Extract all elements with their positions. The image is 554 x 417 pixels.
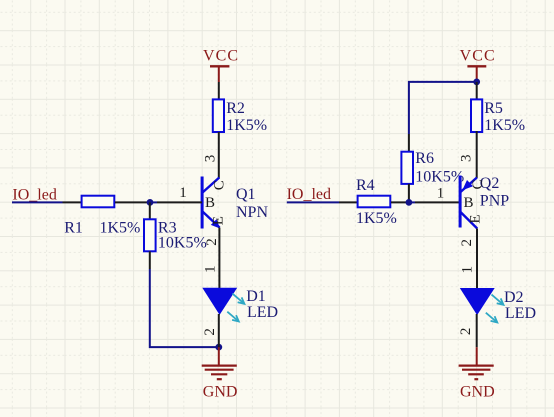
- svg-text:B: B: [205, 195, 215, 211]
- svg-text:1K5%: 1K5%: [100, 220, 141, 237]
- junction node below VCC: [473, 79, 480, 86]
- R3 pin1: [149, 202, 151, 219]
- svg-text:GND: GND: [460, 383, 495, 400]
- light arrow 2 (D2): [486, 313, 498, 323]
- svg-text:1K5%: 1K5%: [484, 117, 525, 134]
- svg-text:R5: R5: [484, 100, 503, 117]
- wire node to Q2 base pin: [415, 201, 460, 203]
- wire Q2 emitter to D2: [476, 229, 478, 289]
- power port GND (left): [202, 347, 238, 400]
- R4 pin2 wire to node: [391, 201, 409, 203]
- svg-text:LED: LED: [505, 305, 536, 322]
- svg-text:3: 3: [203, 155, 219, 163]
- R1 pin2 wire to node: [115, 201, 150, 203]
- light arrow 2 (D1): [227, 312, 239, 322]
- svg-text:3: 3: [458, 155, 474, 163]
- svg-text:IO_led: IO_led: [12, 186, 56, 203]
- wire R5 pin2 to Q2 collector: [476, 131, 478, 178]
- svg-text:D1: D1: [246, 288, 266, 305]
- transistor Q2: [460, 175, 509, 229]
- wire IO_led entry: [12, 201, 63, 203]
- svg-text:C: C: [212, 180, 228, 190]
- wire IO_led entry (right): [287, 201, 339, 203]
- light arrow 1 (D1): [232, 294, 244, 304]
- R6 pin1: [408, 134, 410, 151]
- junction node at R4/R6/base: [406, 199, 416, 206]
- svg-text:10K5%: 10K5%: [158, 235, 207, 252]
- wire VCC to R2 pin1: [218, 82, 220, 99]
- svg-text:R6: R6: [415, 150, 434, 167]
- svg-text:10K5%: 10K5%: [415, 168, 464, 185]
- svg-text:VCC: VCC: [203, 48, 239, 65]
- R4 pin1: [339, 201, 357, 203]
- R3 pin2: [149, 251, 151, 269]
- svg-text:2: 2: [459, 239, 475, 247]
- power port VCC (left): [203, 48, 239, 83]
- transistor Q1: [202, 177, 268, 229]
- svg-text:GND: GND: [203, 383, 238, 400]
- svg-text:IO_led: IO_led: [287, 186, 331, 203]
- svg-text:2: 2: [458, 328, 474, 336]
- svg-text:NPN: NPN: [236, 204, 268, 221]
- resistor R4: [356, 177, 397, 227]
- wire D2 to GND: [476, 314, 478, 347]
- svg-text:1: 1: [459, 266, 475, 274]
- svg-text:R4: R4: [356, 177, 375, 194]
- svg-text:1: 1: [203, 265, 219, 273]
- resistor R6: [401, 150, 464, 186]
- svg-text:1: 1: [437, 185, 445, 201]
- wire node to Q1 base pin: [157, 201, 202, 203]
- svg-text:VCC: VCC: [460, 48, 496, 65]
- junction node at GND (left): [215, 344, 222, 351]
- resistor R3: [144, 219, 207, 251]
- svg-text:Q1: Q1: [236, 186, 256, 203]
- wire D1 to gnd node: [218, 314, 220, 347]
- power port VCC (right): [460, 48, 496, 82]
- svg-text:E: E: [468, 215, 484, 224]
- svg-text:R1: R1: [64, 220, 83, 237]
- light arrow 1 (D2): [492, 295, 504, 305]
- svg-text:1: 1: [179, 185, 187, 201]
- resistor R1: [64, 196, 140, 237]
- wire R3 down to gnd node: [150, 269, 219, 347]
- wire Q1 emitter to D1: [218, 228, 220, 289]
- svg-text:E: E: [210, 216, 226, 225]
- LED D1: [202, 288, 278, 321]
- svg-text:D2: D2: [504, 289, 524, 306]
- resistor R2: [213, 99, 267, 133]
- svg-text:LED: LED: [247, 304, 278, 321]
- resistor R5: [471, 99, 525, 133]
- power port GND (right): [459, 347, 495, 400]
- svg-text:C: C: [470, 179, 486, 189]
- R6 pin2: [408, 184, 410, 203]
- R1 pin1: [63, 201, 82, 203]
- svg-text:R2: R2: [226, 100, 245, 117]
- svg-text:B: B: [463, 195, 473, 211]
- wire R2 pin2 to Q1 collector: [218, 132, 220, 179]
- svg-text:1K5%: 1K5%: [226, 117, 267, 134]
- svg-text:2: 2: [202, 328, 218, 336]
- LED D2: [460, 288, 536, 322]
- junction node at R1/R3/base: [147, 199, 157, 206]
- svg-text:1K5%: 1K5%: [356, 210, 397, 227]
- wire VCC node to R6 branch: [409, 82, 477, 134]
- svg-text:PNP: PNP: [480, 193, 509, 210]
- wire VCC node to R5 pin1: [476, 82, 478, 99]
